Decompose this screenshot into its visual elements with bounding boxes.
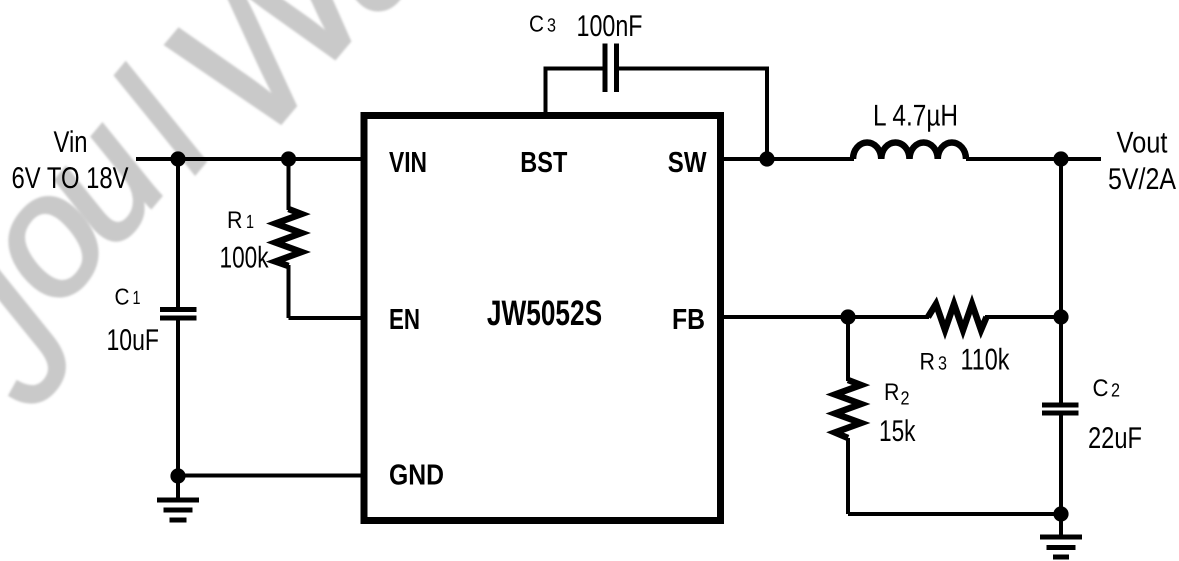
wire right ground stub (1059, 514, 1063, 537)
watermark JoulWatt (0, 0, 467, 438)
node R3 right junction (1053, 309, 1068, 324)
wire inductor to Vout (966, 157, 1101, 161)
ground left (157, 500, 199, 520)
wire Vin input to VIN pin (136, 157, 364, 161)
wire C3 right to SW node (619, 69, 768, 160)
wire left ground stub (176, 476, 180, 500)
wire bottom return to right ground (848, 512, 1061, 516)
svg-text:C: C (115, 284, 130, 310)
wire C2 top lead (1059, 317, 1063, 403)
svg-text:1: 1 (246, 212, 254, 233)
svg-text:1: 1 (133, 288, 141, 309)
node Vout junction (1053, 151, 1068, 166)
resistor R3 zigzag (928, 304, 987, 330)
wire R1 bottom lead (287, 265, 291, 318)
node left ground junction (170, 468, 185, 483)
svg-text:FB: FB (672, 304, 705, 336)
wire C1 top lead (176, 159, 180, 308)
svg-text:110k: 110k (961, 344, 1011, 377)
svg-text:L 4.7µH: L 4.7µH (873, 100, 958, 133)
wire GND pin to ground node (178, 474, 364, 478)
svg-text:GND: GND (389, 460, 444, 492)
svg-text:22uF: 22uF (1088, 422, 1142, 455)
svg-text:2: 2 (1111, 381, 1120, 402)
resistor R2 zigzag (835, 380, 861, 438)
capacitor C3 plates (605, 44, 617, 93)
svg-text:SW: SW (668, 147, 707, 179)
svg-text:Vin: Vin (54, 126, 88, 159)
node Vin junction (170, 151, 185, 166)
resistor R1 zigzag (276, 209, 302, 266)
svg-text:15k: 15k (879, 415, 916, 448)
svg-text:Vout: Vout (1117, 127, 1169, 160)
svg-text:C: C (1093, 375, 1109, 402)
capacitor C1 plates (160, 310, 197, 319)
wire R2 top lead (846, 317, 850, 381)
capacitor C2 plates (1042, 405, 1079, 413)
wire EN pin (289, 316, 365, 320)
wire FB pin to R3 left (720, 315, 929, 319)
svg-text:JW5052S: JW5052S (487, 293, 602, 333)
svg-text:6V TO 18V: 6V TO 18V (12, 162, 129, 195)
svg-text:VIN: VIN (389, 147, 427, 179)
svg-text:R: R (227, 207, 243, 234)
wire R2 bottom lead (846, 438, 850, 514)
wire R3 right to output node (985, 315, 1061, 319)
node FB junction (840, 309, 855, 324)
inductor L coil (853, 142, 966, 159)
node right ground junction (1053, 506, 1068, 521)
node SW junction (759, 151, 774, 166)
ground right (1040, 537, 1082, 557)
wire C1 bottom lead (176, 320, 180, 476)
svg-text:2: 2 (901, 389, 910, 410)
svg-text:R: R (920, 349, 936, 376)
wire SW pin to inductor (720, 157, 854, 161)
wire Vout node down to FB network (1059, 159, 1063, 317)
node R1 top junction (281, 151, 296, 166)
svg-text:3: 3 (547, 16, 556, 37)
wire C2 bottom lead (1059, 415, 1063, 514)
svg-text:EN: EN (389, 304, 420, 336)
IC U1 JW5052S (364, 116, 721, 521)
svg-text:C: C (529, 11, 544, 37)
svg-text:100nF: 100nF (577, 10, 643, 43)
svg-text:3: 3 (938, 354, 947, 375)
wire BST pin to C3 left (546, 69, 604, 116)
wire R1 top lead (287, 159, 291, 210)
svg-text:5V/2A: 5V/2A (1108, 163, 1176, 196)
svg-text:BST: BST (520, 147, 567, 179)
svg-text:10uF: 10uF (107, 324, 160, 357)
svg-text:R: R (884, 379, 900, 406)
svg-text:100k: 100k (220, 242, 270, 275)
